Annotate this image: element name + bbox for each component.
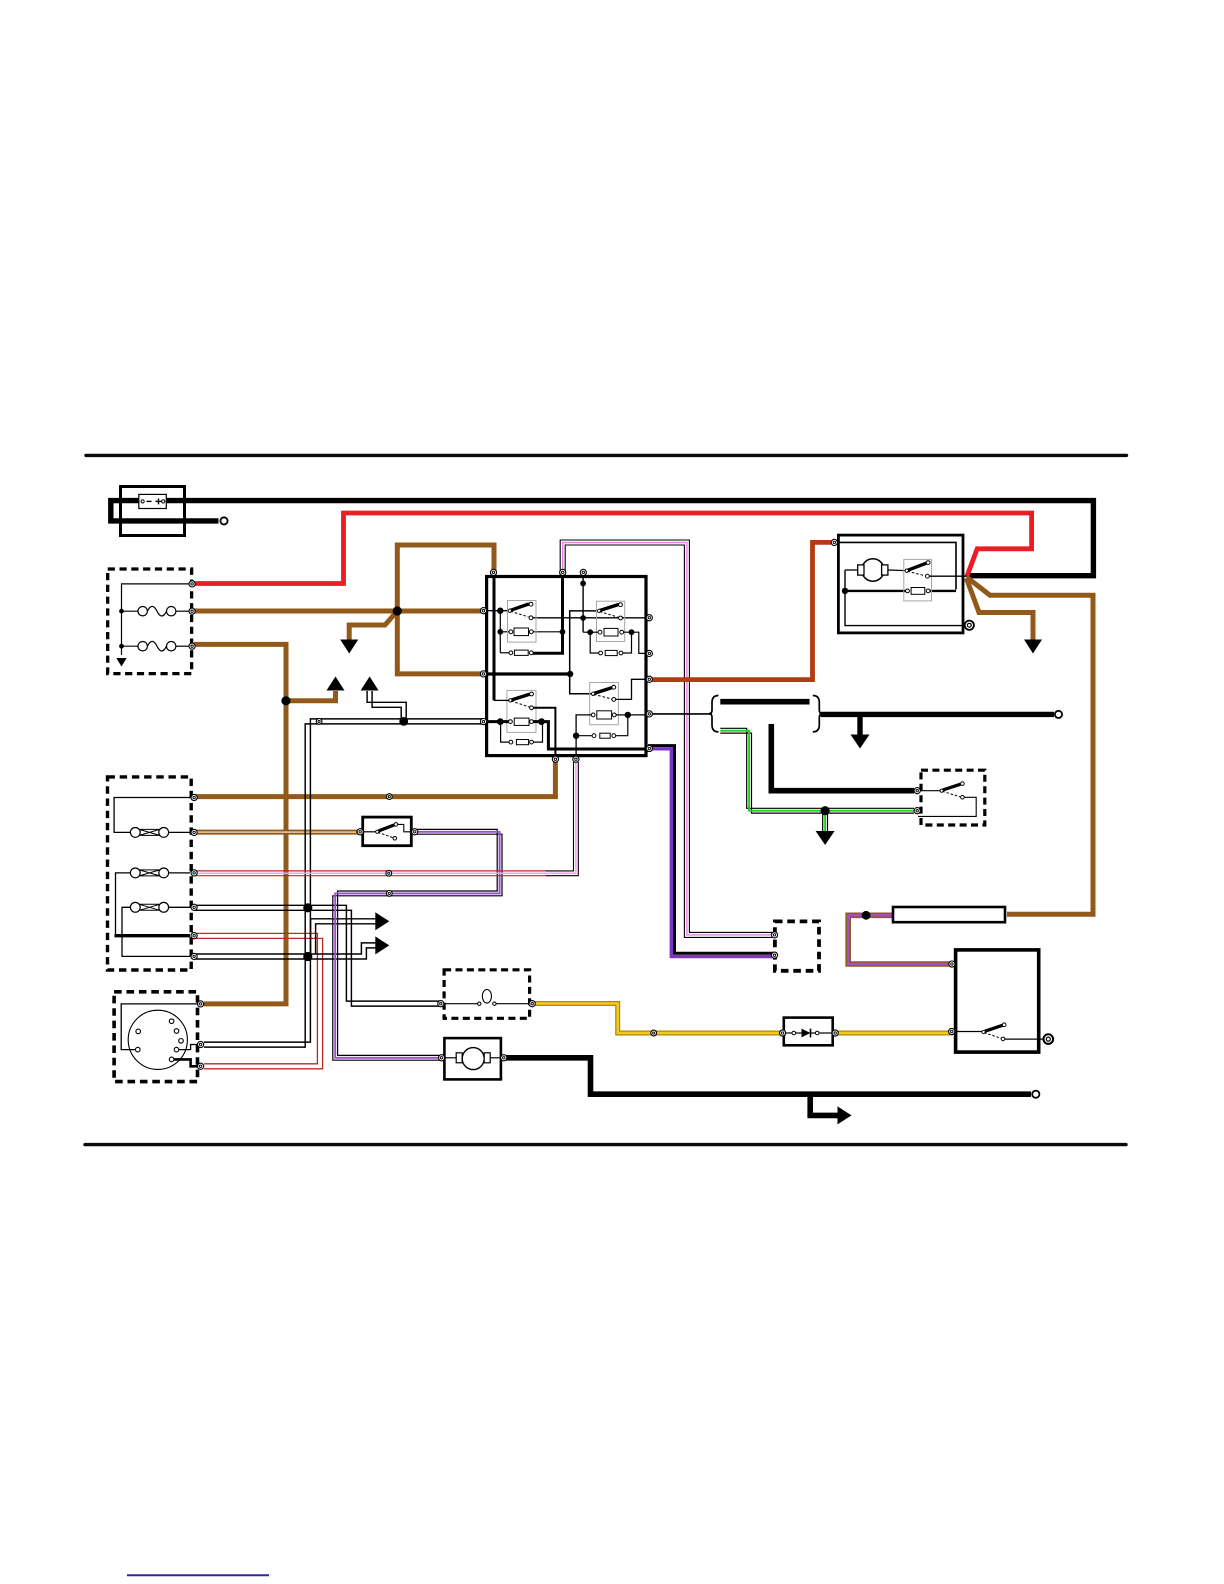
alternator left rail and bottom bbox=[845, 570, 966, 626]
connector on brown T1 wire bbox=[386, 794, 392, 800]
terminal diode right bbox=[832, 1030, 838, 1036]
ring terminal alternator ground bbox=[965, 621, 974, 630]
wire: battery negative loop to ring terminal bbox=[111, 501, 219, 521]
terminal relay right T1 bbox=[646, 615, 652, 621]
terminal oil switch T1 bbox=[914, 788, 920, 794]
fusebox F1 dashed box bbox=[108, 569, 192, 674]
junction dot ballast tap bbox=[862, 911, 871, 920]
wire: pink relay bottom T2 to breaker T3 (red cased) bbox=[194, 762, 578, 876]
relay A resistor right link (thick) bbox=[533, 652, 563, 654]
alternator rotor circle bbox=[862, 559, 884, 581]
bowtie CB1 bbox=[130, 828, 168, 838]
relay D resistor bbox=[592, 734, 596, 738]
wire: battery main feed (black) battery to alternator loop bbox=[160, 501, 1093, 576]
arrow down fusebox ground bbox=[116, 658, 126, 667]
relay D unit bbox=[573, 679, 648, 758]
terminal diode left bbox=[780, 1030, 786, 1036]
ballast resistor box bbox=[893, 907, 1005, 922]
distributor cap contacts bbox=[136, 1019, 184, 1062]
alternator box bbox=[838, 535, 963, 633]
breaker feed line T1 bbox=[114, 798, 190, 833]
wire: black brace to oil switch T1 bbox=[771, 724, 914, 791]
connector on yellow wire bbox=[651, 1030, 657, 1036]
terminal alternator left bbox=[831, 539, 837, 545]
wire: brown stub to down arrow bbox=[349, 611, 397, 640]
relay box feed vertical brown T1 (thick) bbox=[493, 578, 496, 700]
terminal switch box right bbox=[412, 829, 418, 835]
arrow right A8 bbox=[838, 1106, 852, 1124]
connector on purple wire bbox=[386, 891, 392, 897]
bowtie CB3 leads bbox=[122, 907, 190, 956]
wire: black branch to right arrow A8 bbox=[810, 1094, 838, 1115]
inline fuse dashed box bbox=[444, 970, 529, 1019]
wire: purple switch box to washer motor bbox=[333, 829, 502, 1060]
fuse FS1 leads bbox=[122, 610, 139, 612]
footer blue link underline bbox=[127, 1574, 269, 1576]
wire: brown fuse2 down to distributor bbox=[194, 644, 286, 1004]
junction dot T3b bbox=[580, 615, 586, 621]
distributor cap circle bbox=[128, 1010, 187, 1069]
ring terminal main feed bbox=[1055, 711, 1062, 718]
terminal breaker T5 bbox=[191, 933, 197, 939]
terminal connector box T2 bbox=[771, 952, 777, 958]
connector on white wire bbox=[316, 719, 322, 725]
arrow right A5 bbox=[375, 936, 389, 954]
wire: purple/black relay right T5 to dashed connector box bbox=[648, 746, 774, 957]
wire: brown breaker T1 to relay bottom T1 bbox=[194, 762, 555, 797]
wire: black thin relay right T4 to harness brace bbox=[648, 713, 712, 715]
arrow down A6 bbox=[851, 735, 870, 749]
arrow up A2 bbox=[327, 677, 345, 691]
relay C resistor bbox=[509, 740, 513, 744]
top rule bbox=[86, 454, 1127, 457]
washer pump motor box bbox=[444, 1038, 501, 1079]
tan tracer on brown breaker T2 wire bbox=[196, 831, 356, 833]
terminal distributor T3 bbox=[198, 1063, 204, 1069]
distributor feed line T1 bbox=[121, 1004, 198, 1050]
wire: purple/brown ballast to ignition box bbox=[848, 915, 954, 964]
terminal motor left bbox=[439, 1055, 445, 1061]
terminal inline fuse right bbox=[529, 1001, 535, 1007]
relay A feed line bbox=[484, 610, 510, 612]
arrow down (brown alternator stub) bbox=[1024, 640, 1042, 654]
junction dot brown node bbox=[393, 606, 402, 615]
relay B unit bbox=[583, 601, 648, 655]
junction dot white node A3 bbox=[399, 717, 408, 726]
terminal inline fuse left bbox=[438, 1001, 444, 1007]
relay A unit bbox=[508, 601, 537, 656]
junction dot relay A feed bbox=[497, 608, 503, 614]
terminal relay top T3 bbox=[580, 569, 586, 575]
terminal relay top T1 bbox=[490, 569, 496, 575]
terminal oil switch T2 bbox=[914, 808, 920, 814]
junction dot left T2 end bbox=[567, 671, 573, 677]
bowtie CB3 bbox=[130, 902, 168, 912]
relay box long vertical to relay D bbox=[570, 611, 599, 694]
terminal ignition T2 bbox=[949, 1028, 955, 1034]
terminal breaker T6 bbox=[191, 953, 197, 959]
wire: white breaker T6 to junction and arrow A5 bbox=[194, 943, 376, 959]
terminal relay right T2 bbox=[646, 650, 652, 656]
junction dot T3a bbox=[580, 581, 586, 587]
fuse FS2 leads bbox=[122, 645, 139, 647]
wire: black brace to ring terminal right bbox=[821, 712, 1054, 717]
relay box left T2 thick feed bbox=[488, 672, 570, 675]
ring terminal bottom black bbox=[1032, 1091, 1039, 1098]
oil pressure switch dashed box bbox=[921, 770, 985, 825]
terminal breaker T2 bbox=[191, 829, 197, 835]
relay A contact line to right T1 bbox=[531, 617, 648, 619]
terminal relay bottom T1 bbox=[552, 756, 558, 762]
distributor T3 lead thick bbox=[174, 1059, 198, 1066]
wire: pink relay top T2 to dashed connector box bbox=[560, 540, 774, 937]
wire: white/red breaker T5 to distributor T3 bbox=[194, 933, 323, 1068]
breaker T5 thick line bbox=[115, 934, 191, 937]
bottom rule bbox=[85, 1143, 1126, 1146]
arrow down A7 green ground bbox=[816, 831, 835, 845]
wire: brown branch to up arrow A2 bbox=[286, 691, 336, 701]
terminal ignition T1 bbox=[949, 961, 955, 967]
terminal motor right bbox=[501, 1055, 507, 1061]
ring terminal battery ground lead bbox=[220, 517, 227, 524]
distributor T2 lead bbox=[179, 1045, 198, 1050]
wire: black washer motor to ring terminal bottom bbox=[505, 1058, 1031, 1094]
terminal relay right T5 bbox=[646, 745, 652, 751]
arrow right A4 bbox=[375, 912, 389, 930]
relay D coil row bbox=[576, 715, 592, 758]
relay A coil right link bbox=[533, 631, 563, 633]
battery B1 outer box bbox=[121, 487, 185, 536]
terminal distributor T1 bbox=[198, 1001, 204, 1007]
terminal relay right T3 bbox=[646, 676, 652, 682]
wire: brown alternator stub to down arrow bbox=[967, 579, 1034, 641]
terminal relay left T2 bbox=[480, 671, 486, 677]
arrow down (brown stub ground) bbox=[340, 640, 358, 654]
ring terminal ignition output bbox=[1044, 1034, 1054, 1044]
terminal breaker T3 bbox=[191, 870, 197, 876]
relay C coil row thick bbox=[488, 720, 510, 723]
junction dot white node D2 bbox=[303, 952, 312, 961]
wire: red feed fusebox to alternator bbox=[194, 513, 1032, 584]
connector dashed box (pink/purple) bbox=[775, 921, 819, 970]
bowtie CB1 right lead bbox=[168, 831, 190, 833]
relay C unit bbox=[488, 690, 648, 758]
harness bar (thick black) bbox=[720, 699, 809, 705]
wire: brown junction down to relay left T2 bbox=[397, 611, 484, 674]
fusebox internal feed line bbox=[122, 584, 191, 655]
terminal relay left T1 bbox=[480, 608, 486, 614]
wire: yellow inline fuse to diode to ignition box bbox=[531, 1004, 781, 1034]
alternator coil row thick bbox=[845, 590, 907, 592]
relay A left rail bbox=[499, 611, 501, 653]
relay box R outer bbox=[487, 577, 646, 756]
terminal breaker T4 bbox=[191, 904, 197, 910]
breaker dashed box bbox=[108, 777, 192, 970]
harness brace right } bbox=[813, 696, 823, 732]
wire: green stem arrow A7 bbox=[822, 811, 824, 832]
alternator contact output line bbox=[929, 575, 966, 577]
alternator regulator unit bbox=[904, 559, 932, 601]
wire: green brace to oil switch T2 bbox=[720, 728, 914, 813]
fuse FS1 symbol bbox=[138, 606, 176, 616]
fuse FS2 symbol bbox=[138, 641, 176, 651]
junction dot white node D1 bbox=[303, 903, 312, 912]
terminal relay top T2 bbox=[560, 569, 566, 575]
wire: black stem arrow A6 down bbox=[857, 714, 862, 735]
terminal breaker T1 bbox=[191, 794, 197, 800]
wire: white relay left T3 to junctions and distributor T2 bbox=[204, 719, 484, 1047]
ignition switch box bbox=[956, 950, 1039, 1052]
terminal distributor T2 bbox=[198, 1041, 204, 1047]
battery B1 cell box with terminals bbox=[139, 494, 167, 508]
alternator top feed line bbox=[836, 542, 956, 589]
relay B resistor bbox=[599, 651, 603, 655]
connector on pink wire bbox=[386, 870, 392, 876]
terminal fusebox T3 bbox=[189, 643, 195, 649]
wire: brown alternator output right to ballast bbox=[967, 577, 1094, 914]
relay box feed vertical pink T2 (thick) bbox=[531, 578, 562, 653]
distributor dashed box bbox=[114, 992, 197, 1082]
terminal relay left T3 bbox=[480, 719, 486, 725]
terminal relay right T4 bbox=[646, 711, 652, 717]
wire: brown loop junction to relay top T1 bbox=[397, 545, 494, 611]
terminal fusebox T2 bbox=[189, 608, 195, 614]
terminal connector box T1 bbox=[771, 932, 777, 938]
relay box feed vertical white T3 bbox=[582, 578, 584, 632]
terminal fusebox T1 bbox=[189, 581, 195, 587]
harness brace left { bbox=[709, 696, 719, 732]
wire: white stem arrow A4 right bbox=[311, 919, 376, 954]
wire: white branch to inline fuse bbox=[308, 905, 442, 1006]
wire: brown fuse1 to relay left T1 bbox=[194, 609, 484, 614]
wire: brown breaker T2 to switch box bbox=[194, 830, 358, 835]
terminal relay bottom T2 bbox=[573, 756, 579, 762]
terminal switch box left bbox=[357, 829, 363, 835]
bowtie CB2 bbox=[130, 868, 168, 878]
junction dot green node bbox=[821, 806, 830, 815]
wire: rust relay right T3 to alternator bbox=[648, 542, 831, 679]
bowtie CB2 leads bbox=[116, 873, 131, 936]
switch box S1 (solid) bbox=[363, 817, 412, 846]
alternator regulator coil bbox=[906, 589, 910, 593]
wire: white breaker T4 into junction bbox=[194, 905, 308, 910]
junction dot brown node 2 bbox=[281, 696, 290, 705]
arrow up A3 white harness bbox=[361, 677, 379, 691]
diode box bbox=[784, 1018, 833, 1046]
wire: white stem arrow A3 bbox=[367, 691, 406, 721]
